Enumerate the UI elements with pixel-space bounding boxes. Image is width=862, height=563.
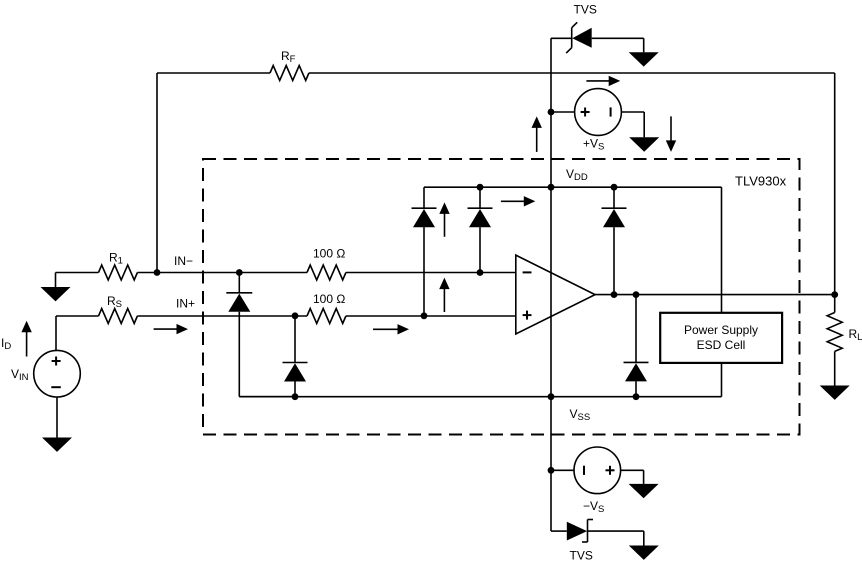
node junction dot D4 top bbox=[477, 184, 484, 191]
current flow arrow (up, left of +VS) bbox=[532, 116, 542, 151]
node junction dot D1 top bbox=[236, 269, 243, 276]
svg-text:IN−: IN− bbox=[174, 254, 193, 268]
node junction dot D4/IN- bbox=[477, 269, 484, 276]
svg-text:ESD Cell: ESD Cell bbox=[697, 338, 746, 352]
diode D5 (output to VDD) bbox=[602, 187, 627, 294]
current flow arrow ID (up) bbox=[21, 321, 31, 357]
current flow arrow (top right) bbox=[586, 76, 620, 86]
current flow arrow (right, after RS) bbox=[154, 324, 188, 334]
diode D3 (IN+ to VDD) bbox=[412, 187, 437, 316]
svg-text:100 Ω: 100 Ω bbox=[313, 247, 345, 261]
svg-text:TVS: TVS bbox=[574, 3, 597, 17]
svg-text:Power Supply: Power Supply bbox=[684, 323, 758, 337]
diode D4 (IN- to VDD) bbox=[468, 187, 493, 272]
wire: VSS rail bbox=[239, 396, 721, 398]
ground (RL) bbox=[820, 386, 850, 400]
current flow arrow (up, between inputs) bbox=[439, 278, 449, 312]
node junction dot D2 bottom bbox=[292, 393, 299, 400]
resistor R1 input network bbox=[56, 265, 158, 287]
node junction dot VDD/main line bbox=[548, 184, 555, 191]
current flow arrow (right, above op-amp) bbox=[501, 196, 535, 206]
diode D2 (VSS to IN+) bbox=[283, 316, 308, 397]
op-amp U1 bbox=[516, 255, 595, 334]
node junction dot VSS/D6 bbox=[633, 393, 640, 400]
node junction dot +VS tap bbox=[548, 109, 555, 116]
svg-text:TVS: TVS bbox=[570, 549, 593, 563]
ground (VIN) bbox=[42, 438, 72, 452]
node junction dot D2/IN+ bbox=[292, 312, 299, 319]
svg-text:TLV930x: TLV930x bbox=[735, 174, 787, 189]
ground (R1) bbox=[41, 287, 71, 301]
dashed IC boundary box TLV930x bbox=[203, 159, 800, 435]
node junction dot D5 top bbox=[611, 184, 618, 191]
wire: IN- line with 100 ohm resistor bbox=[157, 265, 516, 280]
diode D6 (VSS to output) bbox=[624, 295, 649, 397]
wire: ESD cell box bottom to VSS rail bbox=[721, 363, 723, 397]
ground (top TVS) bbox=[629, 52, 659, 66]
node junction dot VSS/main line bbox=[548, 393, 555, 400]
current source +VS bbox=[551, 89, 644, 138]
wire: op-amp output bbox=[595, 294, 835, 296]
diode D1 (VSS to IN-) bbox=[226, 273, 295, 397]
node junction dot output/RL bbox=[831, 291, 838, 298]
wire: IN+ line with 100 ohm resistor bbox=[307, 309, 516, 324]
wire: main supply vertical line x=551 bbox=[550, 38, 552, 531]
TVS D8 (bottom, zener to -VS line) bbox=[551, 520, 644, 546]
current flow arrow (right, IN+ mid) bbox=[373, 324, 409, 334]
ground (+VS) bbox=[629, 137, 659, 152]
ground (-VS) bbox=[629, 484, 659, 498]
node junction dot RF/R1/IN- bbox=[154, 269, 161, 276]
wire: VDD rail to ESD cell box top bbox=[721, 187, 723, 313]
wire: VDD rail bbox=[424, 186, 722, 188]
svg-text:IN+: IN+ bbox=[176, 297, 195, 311]
current flow arrow (up, between D3 D4) bbox=[439, 202, 449, 236]
node junction dot output/D5 bbox=[611, 291, 618, 298]
current source -VS bbox=[551, 447, 644, 494]
voltage source VIN bbox=[34, 316, 81, 438]
ground (bottom TVS) bbox=[629, 546, 659, 560]
Power Supply ESD Cell box bbox=[660, 313, 782, 363]
node junction dot -VS tap bbox=[548, 467, 555, 474]
current flow arrow (down, right of +VS) bbox=[666, 116, 676, 151]
resistor RS source resistor bbox=[56, 309, 307, 324]
resistor RL load bbox=[827, 295, 842, 386]
node junction dot output/D6 bbox=[633, 291, 640, 298]
resistor RF feedback wire bbox=[157, 66, 835, 295]
svg-text:100 Ω: 100 Ω bbox=[313, 292, 345, 306]
TVS D7 (top, zener to +VS line) bbox=[551, 22, 644, 53]
node junction dot D3/IN+ bbox=[421, 312, 428, 319]
